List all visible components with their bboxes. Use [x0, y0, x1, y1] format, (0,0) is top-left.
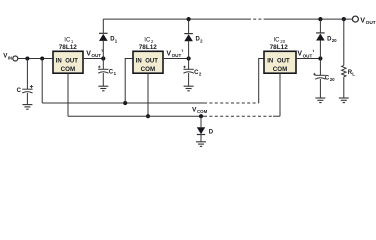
- wire IC20 OUT to node VOUT20: [296, 58, 320, 60]
- diode D2: [184, 19, 203, 58]
- diode D1: [99, 33, 118, 58]
- svg-text:C: C: [17, 88, 22, 94]
- junction VIN rail to IC2 IN: [123, 101, 127, 105]
- node VOUT' of IC20: [297, 50, 322, 61]
- COM rail right solid stub: [273, 115, 280, 117]
- junction input cap C: [25, 57, 29, 61]
- junction VIN rail feed: [40, 57, 44, 61]
- node VOUT' of IC1: [86, 49, 105, 60]
- capacitor C2: [183, 59, 202, 87]
- svg-text:OUT: OUT: [172, 53, 182, 58]
- wire VIN rail up to IC20 IN: [259, 59, 264, 104]
- wire IC20 COM down to COM rail: [279, 73, 281, 116]
- wire IC1 OUT to node VOUT1: [83, 58, 103, 60]
- svg-text:IC: IC: [274, 37, 281, 43]
- regulator IC20 78L12: [264, 37, 296, 73]
- wire VIN junction down to VIN rail: [41, 59, 43, 104]
- svg-text:V: V: [360, 15, 365, 24]
- svg-text:IN: IN: [8, 55, 12, 60]
- svg-text:20: 20: [332, 38, 337, 43]
- wire VIN to IC1 IN: [18, 58, 53, 60]
- wire IC2 OUT to node VOUT2: [163, 58, 189, 60]
- diode D20: [316, 19, 337, 58]
- svg-text:D: D: [209, 129, 214, 135]
- junction top rail D20: [318, 17, 322, 21]
- svg-text:OUT: OUT: [91, 53, 101, 58]
- capacitor C: [17, 59, 33, 105]
- svg-text:OUT: OUT: [366, 20, 376, 26]
- node VCOM: [192, 107, 208, 119]
- capacitor C1: [98, 59, 117, 87]
- svg-text:COM: COM: [197, 109, 208, 114]
- wire VIN rail up to IC2 IN: [125, 59, 133, 104]
- svg-text:IN: IN: [56, 58, 62, 64]
- ground below C20: [315, 98, 325, 103]
- regulator IC2 78L12: [133, 37, 163, 73]
- svg-text:COM: COM: [141, 66, 155, 73]
- wire top rail corner down to D1: [102, 19, 104, 33]
- top rail dashed middle: [248, 18, 266, 20]
- diode D: [197, 116, 214, 142]
- top rail VOUT bus solid left part: [103, 18, 248, 20]
- svg-text:COM: COM: [273, 66, 287, 73]
- svg-text:IN: IN: [136, 58, 142, 64]
- ground below C: [22, 105, 32, 110]
- svg-text:78L12: 78L12: [139, 44, 158, 51]
- junction COM rail IC2: [146, 114, 150, 118]
- junction top rail RL: [342, 17, 346, 21]
- capacitor C20: [313, 59, 335, 99]
- svg-text:OUT: OUT: [65, 58, 78, 64]
- top rail solid right part: [266, 18, 352, 20]
- svg-text:OUT: OUT: [277, 58, 290, 64]
- svg-text:L: L: [352, 71, 355, 76]
- ground below RL: [339, 98, 349, 103]
- junction top rail D2: [187, 17, 191, 21]
- ground below C1: [98, 86, 108, 91]
- wire IC1 COM down to COM rail: [67, 73, 69, 116]
- ground below D: [196, 142, 206, 147]
- COM rail solid part: [68, 115, 204, 117]
- svg-text:20: 20: [330, 77, 335, 82]
- wire IC2 COM down to COM rail: [147, 73, 149, 116]
- svg-text:COM: COM: [61, 66, 75, 73]
- terminal VOUT: [352, 15, 375, 26]
- COM rail dashed part: [204, 115, 273, 117]
- svg-text:OUT: OUT: [145, 58, 158, 64]
- svg-text:IN: IN: [267, 58, 273, 64]
- svg-text:OUT: OUT: [303, 53, 313, 58]
- terminal VIN: [3, 53, 18, 61]
- VIN rail dashed part: [204, 102, 259, 104]
- ground below C2: [184, 86, 194, 91]
- resistor RL: [342, 19, 356, 98]
- node VOUT' of IC2: [166, 49, 190, 60]
- VIN rail solid part: [42, 102, 204, 104]
- regulator IC1 78L12: [53, 37, 83, 73]
- svg-text:78L12: 78L12: [59, 44, 78, 51]
- svg-text:78L12: 78L12: [270, 44, 289, 51]
